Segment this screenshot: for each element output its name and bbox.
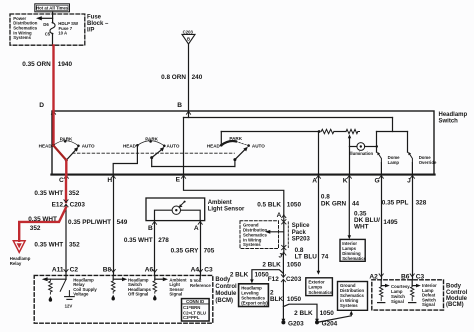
svg-text:Voltage: Voltage — [73, 291, 89, 296]
svg-text:C3: C3 — [204, 267, 213, 274]
wire lamp right lead — [365, 146, 377, 148]
svg-text:A6: A6 — [145, 267, 154, 274]
svg-text:E12: E12 — [52, 201, 64, 208]
splice pack dashed bracket — [287, 222, 289, 248]
svg-text:278: 278 — [158, 237, 169, 244]
svg-text:HEAD: HEAD — [39, 143, 53, 148]
dome override switch blade — [409, 154, 412, 163]
svg-text:0.8: 0.8 — [321, 193, 330, 200]
teardrop ground B8 — [111, 295, 115, 298]
svg-text:Signal: Signal — [422, 302, 435, 307]
svg-text:Pack: Pack — [292, 230, 307, 236]
ground distribution dashed note box — [240, 221, 279, 249]
wire J to F12 — [282, 252, 284, 277]
svg-text:Hot at All Times: Hot at All Times — [36, 6, 69, 11]
svg-text:352: 352 — [69, 241, 80, 248]
svg-text:Switch: Switch — [439, 119, 459, 125]
switch 3 pivot riser — [234, 160, 236, 167]
resistor bcm A2 — [380, 286, 383, 301]
label headlamp relay coil supply voltage — [73, 278, 97, 297]
svg-text:WHT: WHT — [354, 224, 369, 231]
svg-text:AUTO: AUTO — [252, 144, 265, 149]
arrow splice to ground note — [268, 231, 283, 233]
svg-text:240: 240 — [192, 74, 203, 81]
wire switch2 HEAD to H — [113, 145, 137, 174]
svg-text:1050: 1050 — [287, 296, 302, 303]
svg-text:0.35 WHT: 0.35 WHT — [34, 190, 63, 197]
wire switch3 HEAD up to park rail — [220, 132, 222, 146]
dome override switch contact — [407, 132, 409, 153]
BCM right dashed box — [372, 280, 444, 310]
label Splice Pack SP203 — [292, 223, 311, 243]
bcm headlamp off signal input — [112, 275, 114, 279]
BCM left dashed box — [34, 275, 213, 323]
svg-text:D6: D6 — [43, 22, 49, 27]
wire hot feed into fuse — [52, 12, 54, 23]
svg-text:G203: G203 — [288, 321, 304, 328]
svg-text:C203: C203 — [286, 276, 302, 283]
svg-text:Body: Body — [215, 277, 231, 283]
ground G204 — [315, 319, 319, 323]
svg-text:SP203: SP203 — [292, 237, 311, 243]
svg-text:44: 44 — [352, 201, 360, 208]
svg-text:AUTO: AUTO — [82, 144, 95, 149]
svg-text:0.35 WHT: 0.35 WHT — [124, 237, 153, 244]
label Hot at All Times box — [35, 4, 70, 12]
svg-text:Schematics: Schematics — [308, 290, 332, 295]
wire B down to rail — [188, 111, 190, 118]
resistor bcm A6 — [153, 279, 157, 293]
wire K to interior lamps dimming — [348, 176, 350, 237]
resistor bcm B8 — [111, 279, 115, 293]
svg-text:LT BLU: LT BLU — [295, 253, 318, 260]
label Body Control Module BCM left — [215, 277, 237, 304]
svg-text:Ambient: Ambient — [208, 200, 232, 206]
switch 1 blade arrow to AUTO — [66, 149, 76, 160]
svg-text:10 A: 10 A — [58, 30, 67, 35]
ground G203 — [282, 319, 286, 323]
svg-text:A4: A4 — [191, 267, 200, 274]
svg-text:A: A — [194, 225, 199, 232]
exterior lamps schematics box — [306, 278, 333, 296]
svg-text:AUTO: AUTO — [167, 144, 180, 149]
svg-text:BLK: BLK — [270, 296, 284, 303]
resistor bcm A11 — [49, 279, 53, 294]
svg-text:352: 352 — [30, 225, 41, 232]
svg-text:Off Signal: Off Signal — [128, 291, 148, 296]
node park rail junction — [318, 130, 321, 133]
note power distribution schematics — [13, 16, 37, 40]
svg-text:12V: 12V — [65, 304, 73, 309]
svg-text:Reference: Reference — [190, 283, 211, 288]
resistor R1 illumination — [321, 129, 334, 133]
rheostat wiper arrow — [349, 137, 351, 147]
wire G stub — [380, 163, 382, 175]
switch 3 contacts — [207, 136, 265, 149]
dome lamp switch contact — [376, 132, 378, 153]
svg-text:B: B — [187, 36, 190, 41]
CONN ID table — [182, 299, 210, 321]
photo sensor symbol — [172, 206, 180, 214]
svg-text:B8: B8 — [103, 267, 112, 274]
svg-text:Systems: Systems — [340, 303, 358, 308]
wire fuse output — [52, 34, 54, 46]
branch wire to headlamp leveling — [252, 270, 284, 281]
svg-text:Lamp: Lamp — [388, 160, 400, 165]
svg-text:G204: G204 — [322, 321, 338, 328]
splice X bottom — [282, 245, 286, 249]
switch 1 contact arc — [53, 141, 78, 146]
svg-text:Signal: Signal — [391, 299, 404, 304]
wire between resistors — [334, 131, 346, 133]
svg-text:A11: A11 — [52, 267, 64, 274]
svg-text:HEAD: HEAD — [123, 143, 137, 148]
wire lamp left lead — [350, 146, 357, 148]
svg-text:C203: C203 — [70, 201, 86, 208]
svg-text:0.35 PPL/WHT: 0.35 PPL/WHT — [68, 219, 111, 226]
svg-text:F12: F12 — [268, 276, 279, 283]
switch 2 contacts — [123, 137, 180, 149]
svg-text:C203: C203 — [183, 29, 194, 34]
svg-text:0.35 ORN: 0.35 ORN — [22, 61, 51, 68]
wire J stub — [411, 163, 413, 175]
svg-text:HEAD: HEAD — [207, 143, 221, 148]
svg-text:0.35 PPL: 0.35 PPL — [382, 200, 409, 207]
svg-text:Systems: Systems — [13, 35, 31, 40]
svg-text:705: 705 — [204, 247, 215, 254]
svg-text:Module: Module — [446, 296, 468, 302]
wire red branch to headlamp relay — [19, 208, 66, 241]
park rail to A riser — [221, 131, 319, 133]
svg-text:Fuse: Fuse — [87, 14, 102, 20]
switch 2 contact arc — [137, 141, 164, 146]
svg-text:D: D — [39, 102, 44, 109]
mechanical linkage dashed — [73, 152, 235, 154]
svg-text:DK GRN: DK GRN — [321, 201, 347, 208]
ground bar A2 — [378, 302, 385, 304]
note ground distribution text — [243, 223, 267, 248]
wire red pivot to C — [65, 160, 67, 175]
resistor R2 dimmer rheostat — [346, 129, 360, 133]
arrow to power distribution note — [41, 17, 53, 19]
svg-text:B6: B6 — [401, 274, 410, 281]
svg-text:0.5 BLK: 0.5 BLK — [257, 202, 281, 209]
wire sensor A to BCM A4 — [200, 222, 202, 276]
bcm interior lamp defeat input — [411, 280, 413, 286]
bcm ambient light sensor input — [154, 275, 156, 279]
label Body Control Module BCM right — [446, 284, 468, 309]
wire A to exterior lamps — [318, 176, 320, 272]
svg-text:Light Sensor: Light Sensor — [208, 206, 245, 212]
off-page arrow headlamp relay — [13, 241, 25, 253]
ground bar B6 — [409, 302, 416, 304]
svg-text:B: B — [148, 225, 153, 232]
wire E elbow to splice feed — [184, 176, 284, 215]
dome lamp switch blade — [378, 154, 381, 163]
svg-text:Control: Control — [446, 290, 468, 296]
svg-text:CONN ID: CONN ID — [186, 299, 204, 304]
sensor internal wires — [155, 210, 201, 220]
bcm headlamp relay driver node — [65, 275, 67, 279]
label Dome Override — [419, 155, 437, 165]
bcm courtesy lamp switch input — [380, 280, 382, 286]
label Ambient Light Sensor — [208, 200, 245, 212]
switch 3 blade arrow to AUTO — [235, 149, 246, 160]
svg-text:0.35 WHT: 0.35 WHT — [28, 216, 57, 223]
switch 2 blade arrow to AUTO — [152, 149, 163, 157]
teardrop ground A6 — [153, 295, 157, 298]
resistor bcm B6 — [411, 286, 414, 301]
teardrop ground A11 — [49, 296, 53, 299]
B rail across box — [184, 117, 393, 119]
svg-text:Body: Body — [446, 284, 462, 290]
svg-text:2 BLK: 2 BLK — [262, 261, 281, 268]
svg-text:Schematics: Schematics — [342, 256, 366, 261]
svg-text:0.35 WHT: 0.35 WHT — [34, 241, 63, 248]
dome rail — [377, 131, 408, 133]
svg-text:Illumination: Illumination — [349, 151, 373, 156]
wire black connector to BCM A11 — [65, 204, 67, 275]
headlamp switch box — [52, 111, 434, 175]
svg-text:1050: 1050 — [287, 202, 302, 209]
bcm 5 volt reference stub — [199, 275, 201, 278]
wire J to BCM B6 — [412, 176, 414, 280]
svg-text:(BCM): (BCM) — [446, 302, 464, 308]
interior lamps dimming schematics box — [340, 239, 365, 261]
svg-text:Override: Override — [419, 160, 437, 165]
label Fuse Block I/P — [87, 14, 109, 33]
wire F12 to G203 — [282, 279, 284, 319]
svg-text:74: 74 — [321, 253, 329, 260]
switch blade 12V — [60, 279, 66, 291]
svg-text:1050: 1050 — [287, 261, 302, 268]
svg-text:(Export only): (Export only) — [241, 300, 268, 305]
svg-text:0.35 GRY: 0.35 GRY — [171, 247, 200, 254]
wire 0.35 ORN 1940 (red highlighted) — [52, 46, 54, 112]
svg-text:Relay: Relay — [10, 261, 22, 266]
wire 0.8 ORN 240 — [188, 44, 190, 111]
label 0.8 LT BLU — [295, 247, 329, 261]
svg-text:2 BLK: 2 BLK — [230, 271, 249, 278]
svg-text:Systems: Systems — [243, 242, 261, 247]
svg-text:0.8 ORN: 0.8 ORN — [161, 74, 186, 81]
svg-text:Control: Control — [215, 284, 237, 290]
wire K vertical — [349, 147, 351, 175]
switch 1 pivot — [65, 159, 68, 162]
svg-text:E: E — [176, 177, 181, 184]
wire sensor B to BCM A6 — [154, 222, 156, 276]
splice X top — [282, 220, 286, 224]
arrow left A11 — [47, 278, 67, 280]
svg-text:(BCM): (BCM) — [215, 298, 233, 304]
label Headlamp Switch — [439, 112, 468, 124]
wire H to BCM B8 — [113, 176, 115, 276]
svg-text:A2: A2 — [369, 274, 378, 281]
label HDLP SW Fuse 7 10 A — [58, 21, 79, 35]
wire A vertical — [318, 132, 320, 175]
switch 2 pivot — [150, 156, 153, 159]
switch 3 dashed PARK to AUTO — [236, 141, 249, 145]
svg-text:B: B — [177, 102, 182, 109]
svg-text:1050: 1050 — [320, 310, 335, 317]
svg-text:Module: Module — [215, 291, 237, 297]
lamp illumination — [357, 143, 365, 151]
wire G to BCM A2 — [381, 176, 383, 280]
splice pack SP203 wire — [283, 215, 285, 252]
svg-text:1940: 1940 — [58, 61, 73, 68]
svg-text:I/P: I/P — [87, 28, 94, 34]
switch 1 contacts HEAD PARK AUTO — [39, 136, 95, 148]
drop from B rail to dome rail — [392, 118, 394, 132]
svg-text:C5: C5 — [45, 32, 51, 37]
label Dome Lamp — [388, 155, 401, 165]
svg-text:C3: C3 — [416, 274, 425, 281]
svg-text:C3=PPL: C3=PPL — [183, 315, 200, 320]
svg-text:Splice: Splice — [292, 223, 310, 229]
headlamp leveling schematics box — [239, 284, 269, 307]
battery 12V — [68, 291, 70, 297]
svg-text:J: J — [279, 252, 283, 259]
svg-text:2 BLK: 2 BLK — [294, 310, 313, 317]
label 2 BLK stacked — [270, 290, 302, 303]
svg-text:352: 352 — [69, 190, 80, 197]
branch wire to G204 — [283, 304, 317, 319]
label Headlamp Relay — [10, 256, 31, 266]
svg-text:328: 328 — [416, 200, 427, 207]
wire red C to connector E12 — [65, 176, 67, 202]
light arrow into sensor — [180, 202, 184, 206]
connector C203 off-page triangle — [182, 29, 195, 44]
ground distribution schematics box (solid) — [338, 282, 368, 311]
svg-text:Signal: Signal — [169, 291, 182, 296]
switch 3 closed blade HEAD-PARK thick arc — [221, 141, 236, 145]
ambient light sensor box — [146, 198, 205, 221]
fuse block I/P dashed box — [10, 14, 85, 45]
switch 1 red blade HEAD to pivot — [53, 145, 66, 160]
bus pivot2 to pivot3 — [152, 166, 235, 168]
svg-text:1495: 1495 — [383, 219, 398, 226]
svg-text:Block –: Block – — [87, 21, 109, 27]
fuse HDLP SW Fuse 7 10A — [50, 23, 55, 34]
wire G204 to ground distribution box — [319, 314, 351, 322]
wire switch2 pivot to bus — [151, 158, 153, 167]
svg-text:Headlamp: Headlamp — [439, 112, 468, 118]
switch 3 pivot — [233, 158, 236, 161]
svg-text:549: 549 — [117, 219, 128, 226]
label 0.35 DK BLU/WHT 1495 — [354, 210, 398, 230]
wire E vertical — [183, 118, 185, 175]
svg-text:C: C — [59, 177, 64, 184]
svg-text:C2: C2 — [70, 267, 79, 274]
label 0.8 DK GRN 44 — [321, 193, 360, 207]
svg-text:A: A — [277, 212, 282, 219]
wire red D to HEAD contact — [52, 111, 54, 145]
